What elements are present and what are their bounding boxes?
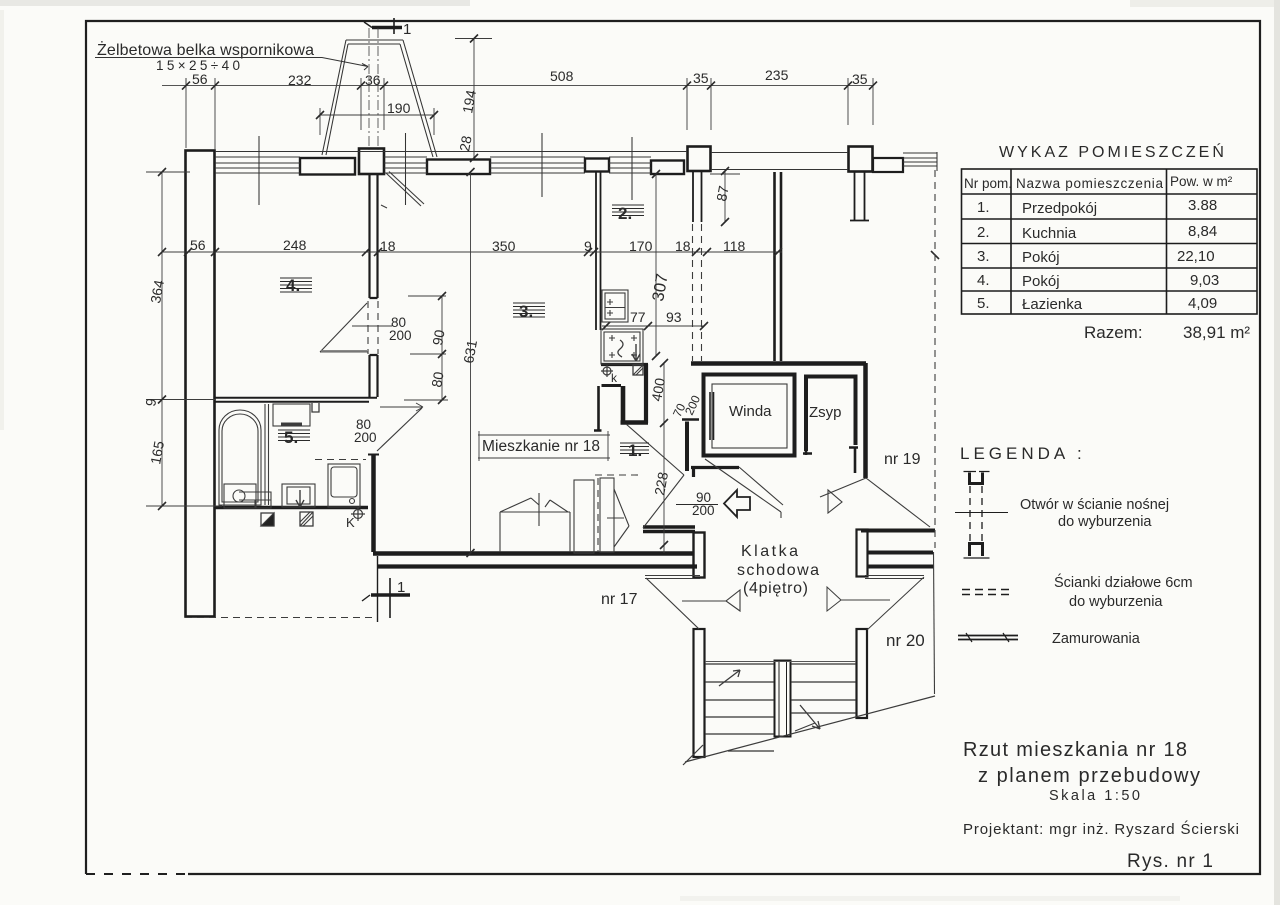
svg-text:8,84: 8,84 xyxy=(1188,223,1217,240)
svg-text:35: 35 xyxy=(693,70,709,86)
svg-text:508: 508 xyxy=(550,68,574,84)
svg-text:Skala 1:50: Skala 1:50 xyxy=(1049,788,1140,804)
svg-text:200: 200 xyxy=(692,503,715,518)
svg-text:Rys. nr 1: Rys. nr 1 xyxy=(1127,851,1213,872)
svg-text:nr 19: nr 19 xyxy=(884,451,921,468)
svg-text:1.: 1. xyxy=(628,441,642,460)
svg-text:nr 20: nr 20 xyxy=(886,631,925,650)
svg-text:190: 190 xyxy=(387,100,411,116)
svg-text:2.: 2. xyxy=(618,204,632,223)
svg-text:Otwór w ścianie nośnej: Otwór w ścianie nośnej xyxy=(1020,497,1169,513)
svg-text:3.: 3. xyxy=(977,248,990,265)
svg-text:350: 350 xyxy=(492,238,516,254)
svg-text:Zsyp: Zsyp xyxy=(809,404,842,421)
svg-text:Pow. w m²: Pow. w m² xyxy=(1170,174,1233,189)
svg-text:K: K xyxy=(346,515,355,530)
svg-text:4,09: 4,09 xyxy=(1188,295,1217,312)
svg-text:do wyburzenia: do wyburzenia xyxy=(1069,594,1163,610)
svg-text:22,10: 22,10 xyxy=(1177,248,1215,265)
svg-text:235: 235 xyxy=(765,67,789,83)
svg-text:3.88: 3.88 xyxy=(1188,197,1217,214)
svg-text:36: 36 xyxy=(365,72,381,88)
svg-text:28: 28 xyxy=(456,134,474,152)
svg-text:2.: 2. xyxy=(977,224,990,241)
svg-text:(4piętro): (4piętro) xyxy=(743,580,808,597)
svg-text:77: 77 xyxy=(630,309,646,325)
svg-text:1: 1 xyxy=(403,21,411,38)
svg-text:Nr pom.: Nr pom. xyxy=(964,176,1012,191)
svg-text:Pokój: Pokój xyxy=(1022,249,1060,266)
svg-text:56: 56 xyxy=(190,237,206,253)
svg-text:118: 118 xyxy=(723,238,746,254)
svg-text:z planem przebudowy: z planem przebudowy xyxy=(978,765,1200,787)
svg-text:Kuchnia: Kuchnia xyxy=(1022,225,1077,242)
svg-text:Winda: Winda xyxy=(729,403,772,420)
svg-text:232: 232 xyxy=(288,72,312,88)
svg-text:Mieszkanie nr 18: Mieszkanie nr 18 xyxy=(482,438,600,455)
svg-text:Zamurowania: Zamurowania xyxy=(1052,631,1141,647)
svg-text:schodowa: schodowa xyxy=(737,562,819,579)
svg-text:9,03: 9,03 xyxy=(1190,272,1219,289)
svg-text:Rzut mieszkania nr 18: Rzut mieszkania nr 18 xyxy=(963,739,1187,761)
svg-text:Żelbetowa belka wspornikowa: Żelbetowa belka wspornikowa xyxy=(97,40,314,59)
svg-text:Razem:: Razem: xyxy=(1084,323,1143,342)
svg-text:do wyburzenia: do wyburzenia xyxy=(1058,514,1152,530)
svg-text:200: 200 xyxy=(389,328,412,343)
svg-text:18: 18 xyxy=(675,238,691,254)
svg-text:1.: 1. xyxy=(977,199,990,216)
svg-text:Pokój: Pokój xyxy=(1022,273,1060,290)
svg-text:170: 170 xyxy=(629,238,653,254)
svg-text:Projektant: mgr inż. Ryszard Ś: Projektant: mgr inż. Ryszard Ścierski xyxy=(963,820,1239,838)
svg-text:87: 87 xyxy=(713,184,731,202)
svg-text:35: 35 xyxy=(852,71,868,87)
svg-text:4.: 4. xyxy=(286,276,300,295)
svg-text:Nazwa pomieszczenia: Nazwa pomieszczenia xyxy=(1016,176,1163,191)
svg-text:80: 80 xyxy=(428,370,446,388)
svg-text:Ścianki działowe 6cm: Ścianki działowe 6cm xyxy=(1054,573,1193,591)
svg-text:248: 248 xyxy=(283,237,307,253)
svg-text:1: 1 xyxy=(397,579,405,596)
svg-text:9: 9 xyxy=(584,238,592,254)
svg-text:4.: 4. xyxy=(977,272,990,289)
svg-text:93: 93 xyxy=(666,309,682,325)
svg-text:200: 200 xyxy=(354,430,377,445)
svg-text:56: 56 xyxy=(192,71,208,87)
svg-text:Łazienka: Łazienka xyxy=(1022,296,1083,313)
svg-text:nr 17: nr 17 xyxy=(601,591,638,608)
svg-text:k: k xyxy=(611,371,618,385)
svg-text:5.: 5. xyxy=(977,295,990,312)
svg-text:WYKAZ POMIESZCZEŃ: WYKAZ POMIESZCZEŃ xyxy=(999,142,1227,161)
svg-text:5.: 5. xyxy=(284,428,298,447)
svg-text:18: 18 xyxy=(380,238,396,254)
svg-text:3.: 3. xyxy=(519,302,533,321)
svg-text:90: 90 xyxy=(429,328,447,346)
svg-text:Przedpokój: Przedpokój xyxy=(1022,200,1097,217)
svg-text:38,91 m²: 38,91 m² xyxy=(1183,323,1250,342)
svg-text:LEGENDA :: LEGENDA : xyxy=(960,444,1086,463)
